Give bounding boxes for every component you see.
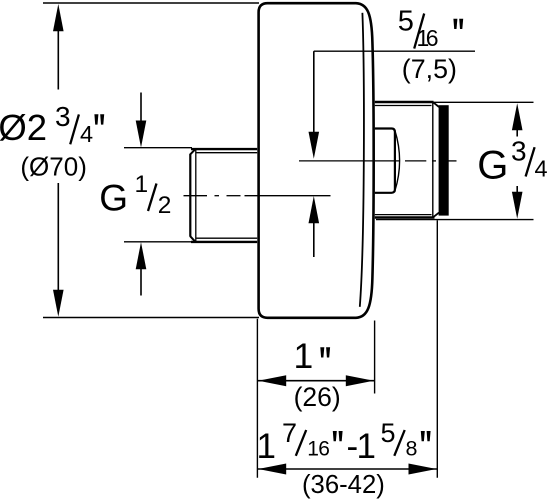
connector G3/4 bottom edge: [375, 218, 534, 220]
label diameter 70 mm: [20, 151, 86, 181]
svg-text:(Ø70): (Ø70): [20, 151, 86, 181]
svg-text:8: 8: [406, 437, 418, 461]
connector G3/4 thread root top: [375, 105, 432, 107]
dimension 36-42 line: [257, 464, 437, 475]
connector G3/4 chamfer top: [433, 102, 439, 107]
svg-text:4: 4: [535, 156, 548, 182]
svg-text:3: 3: [511, 136, 527, 167]
svg-text:5: 5: [398, 6, 414, 38]
dimension Ø70 bottom extension line: [43, 317, 259, 319]
svg-text:1: 1: [294, 336, 314, 376]
dimension 1 inch line: [257, 375, 374, 386]
pipe G1/2 bottom edge with extension: [124, 241, 257, 243]
label 5/16 inch: [398, 6, 463, 52]
svg-text:7: 7: [282, 418, 297, 448]
dimension G3/4 upper arrow: [512, 103, 523, 136]
label 1 inch: [294, 336, 331, 376]
connector G3/4 centerline: [299, 160, 457, 162]
dimension 36-42 right extension: [436, 220, 438, 478]
svg-text:(7,5): (7,5): [402, 54, 457, 84]
dimension 5/16 lower arrow: [309, 196, 320, 257]
svg-text:(26): (26): [294, 382, 341, 412]
svg-text:Ø2: Ø2: [0, 107, 47, 148]
label G 1/2: [99, 171, 171, 219]
label G 3/4: [477, 136, 547, 188]
pipe G1/2 chamfer top: [190, 149, 195, 154]
dimension 1 inch left extension: [256, 319, 258, 478]
connector G3/4 internal hole profile: [375, 129, 400, 193]
connector G3/4 thread root bottom: [375, 214, 432, 216]
label diameter 2 3/4 inch: [0, 101, 104, 148]
svg-text:1: 1: [357, 427, 376, 466]
dimension Ø70 line upper: [53, 4, 64, 90]
connector G3/4 seal ring (black band): [439, 105, 449, 215]
connector G3/4 top edge: [375, 101, 534, 104]
dimension 5/16 leader line: [314, 50, 475, 52]
svg-text:3: 3: [55, 101, 71, 132]
svg-text:(36-42): (36-42): [302, 471, 385, 499]
pipe G1/2 top edge with extension: [124, 148, 257, 149]
dimension Ø70 top extension line: [43, 2, 259, 4]
pipe G1/2 centerline: [184, 195, 331, 197]
svg-text:G: G: [99, 178, 128, 219]
connector G3/4 chamfer bottom: [433, 213, 439, 218]
dimension G1/2 upper arrow: [136, 93, 147, 148]
svg-text:2: 2: [158, 192, 172, 219]
dimension G3/4 lower arrow: [512, 186, 523, 219]
pipe G1/2 thread root top: [196, 152, 257, 154]
label 7,5 mm: [402, 54, 457, 84]
pipe G1/2 chamfer bottom: [190, 236, 195, 242]
pipe G1/2 thread root bottom: [196, 237, 257, 239]
svg-text:5: 5: [381, 418, 396, 448]
svg-text:1: 1: [307, 438, 319, 461]
dimension G1/2 lower arrow: [136, 242, 147, 295]
svg-text:1: 1: [135, 171, 149, 198]
pipe G1/2 thread start line: [195, 149, 197, 242]
connector G3/4 face line: [432, 102, 434, 218]
label 1 7/16 - 1 5/8 inch: [257, 418, 431, 466]
label 36-42 mm: [302, 471, 385, 499]
dimension 5/16 upper arrow: [309, 51, 320, 159]
svg-text:G: G: [477, 143, 508, 187]
svg-text:1: 1: [257, 427, 276, 466]
svg-text:6: 6: [426, 25, 439, 51]
pipe G1/2 end face: [189, 154, 191, 237]
dimension 1 inch right extension: [374, 321, 376, 394]
label 26 mm: [294, 382, 341, 412]
body escutcheon outline: [259, 3, 374, 318]
svg-text:4: 4: [80, 121, 93, 147]
dimension Ø70 line lower: [53, 183, 64, 317]
body face curve: [360, 13, 364, 307]
svg-text:6: 6: [318, 438, 330, 461]
